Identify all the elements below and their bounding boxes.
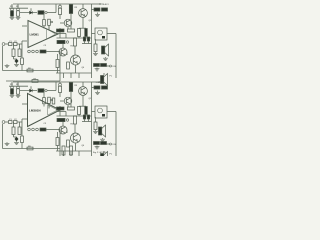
capacitor C11 zobel bottom: [94, 142, 100, 145]
wire Q2 base top: [60, 22, 64, 24]
diode D2 bottom: [85, 107, 88, 115]
transistor Q4 top: [71, 55, 81, 65]
wire rail drop A bottom: [59, 82, 61, 84]
diode D1 bottom: [30, 89, 33, 92]
svg-text:+ 40 V: + 40 V: [103, 4, 110, 6]
capacitor C2 top: [17, 8, 20, 11]
wire rail cont D top: [91, 73, 93, 78]
wire input 2 bottom: [17, 121, 22, 123]
wire boot top: [59, 28, 61, 38]
wire fb link bottom: [59, 149, 61, 160]
wire Q1 emitter bottom: [82, 95, 84, 106]
wire Q3 base link top: [62, 44, 64, 48]
wire R6 stub bottom: [48, 103, 50, 108]
capacitor C5 bottom: [14, 121, 18, 124]
wire input top: [5, 43, 9, 45]
wire output top: [57, 33, 66, 35]
resistor R1 top: [11, 11, 14, 16]
output terminal top: [110, 65, 112, 67]
capacitor C10 bottom: [59, 83, 62, 86]
resistor R5 top: [43, 20, 46, 26]
resistor R19b cut: [70, 146, 73, 155]
node mid bottom: [66, 119, 68, 121]
node bias top: [45, 11, 47, 13]
wire Q4 emitter bottom: [75, 143, 77, 151]
wire R2 top lead top: [17, 4, 19, 8]
transistor Q4 bottom: [71, 133, 81, 143]
transistor Q1 top: [79, 9, 88, 18]
resistor R6 bottom: [48, 97, 51, 103]
resistor R9 feedback bottom: [32, 158, 38, 161]
resistor R2 bottom: [17, 89, 20, 94]
wire R17 link top: [74, 46, 76, 55]
wire R20 lead top: [92, 9, 95, 11]
resistor R14 bottom: [68, 107, 75, 110]
resistor R16 bottom: [57, 118, 65, 121]
wire output bottom: [57, 111, 66, 113]
wire comp row top: [46, 51, 60, 53]
supply terminal top: [100, 3, 104, 5]
wire input down top: [21, 44, 23, 58]
wire feedback 1 bottom: [3, 148, 61, 150]
fuse box F1 top: [95, 28, 107, 40]
resistor R4 bottom: [18, 127, 21, 135]
wire div drop1 top: [13, 44, 15, 49]
wire feedback drop bottom: [2, 124, 4, 149]
resistor R17 bottom: [74, 116, 77, 124]
wire pin comp1 top: [43, 13, 45, 20]
wire rail cont A bottom: [63, 151, 65, 156]
wire rail drop A top: [59, 4, 61, 6]
wire input down bottom: [21, 122, 23, 136]
wire fb link top: [59, 71, 61, 82]
wire Q3 base link bottom: [62, 122, 64, 126]
wire R14 link bottom: [70, 92, 72, 108]
resistor R19 top: [67, 62, 70, 69]
fuse box F1 bottom: [95, 106, 107, 118]
wire D2 link top: [85, 37, 87, 39]
wire R1 top lead bottom: [11, 82, 13, 86]
wire comp row bottom: [46, 129, 60, 131]
wire speaker2 lead bottom: [103, 151, 105, 153]
resistor R12 top: [69, 5, 72, 14]
wire R11-Q2 top: [59, 15, 61, 20]
wire R2 top lead bottom: [17, 82, 19, 86]
wire mid bus bottom: [57, 115, 92, 117]
wire R18 lead top: [57, 54, 59, 60]
resistor R22 top: [94, 44, 97, 52]
wire pin R6 bottom: [48, 103, 50, 107]
wire emitter tie top: [79, 27, 86, 29]
svg-text:LM391N: LM391N: [29, 109, 41, 113]
wire R3 down top: [13, 57, 15, 60]
op-amp LM391N bottom: [28, 94, 61, 127]
wire rail cont A top: [63, 73, 65, 78]
node mid top: [66, 41, 68, 43]
wire non-inverting input bottom: [22, 118, 27, 120]
wire bias rise top: [55, 4, 57, 13]
wire R3 down bottom: [13, 135, 15, 138]
capacitor C6 bottom: [15, 137, 19, 141]
capacitor C8 top: [32, 50, 35, 53]
wire Q1 collector top: [82, 4, 84, 9]
capacitor C3 bottom: [38, 89, 44, 93]
wire R18 lead bottom: [57, 132, 59, 138]
transistor Q3 top: [59, 48, 67, 56]
wire rail cont C top: [78, 73, 80, 78]
ground below R2 top: [16, 16, 21, 19]
speaker LS2 bottom: [101, 152, 108, 164]
wire pin comp1 bottom: [43, 91, 45, 98]
resistor R1 bottom: [11, 89, 14, 94]
resistor R18 bottom: [56, 138, 59, 146]
svg-text:LM391: LM391: [30, 33, 40, 37]
wire Q3-Q4 bottom: [66, 130, 68, 133]
resistor R9 feedback top: [32, 80, 38, 83]
transistor Q1 bottom: [79, 87, 88, 96]
wire R20 lead bottom: [92, 87, 95, 89]
ground speaker bottom: [100, 138, 105, 141]
capacitor C2 bottom: [17, 86, 20, 89]
wire bottom bus bottom: [56, 150, 92, 152]
transistor Q2 bottom: [64, 97, 72, 105]
wire Q1 collector bottom: [82, 82, 84, 87]
resistor R3 top: [12, 49, 15, 57]
wire bottom cut B: [70, 155, 72, 156]
wire bottom cut A: [63, 155, 65, 156]
resistor R13 top: [57, 29, 65, 32]
wire emitter tie bottom: [79, 105, 86, 107]
wire output up top: [65, 34, 67, 39]
ground R20 bottom: [95, 91, 100, 95]
supply terminal bottom: [100, 81, 104, 83]
op-amp inner triangle top: [47, 29, 56, 39]
resistor R8 feedback top: [27, 69, 33, 72]
wire fuse lead top: [92, 33, 96, 35]
capacitor C9 top: [36, 50, 39, 53]
wire Q2 base bottom: [60, 100, 64, 102]
resistor R20 top: [94, 8, 100, 11]
wire out link bottom: [107, 111, 116, 113]
diode D4 top: [87, 37, 89, 41]
wire D4 link top: [88, 41, 90, 44]
diode D1 top: [30, 11, 33, 14]
resistor R13 bottom: [57, 107, 65, 110]
capacitor C11 zobel top: [94, 64, 100, 67]
node pin8 bottom: [51, 99, 53, 101]
capacitor C5 top: [14, 43, 18, 46]
input jack J1 top: [2, 43, 5, 46]
wire inverting input top: [22, 25, 27, 27]
wire input up bottom: [21, 119, 23, 122]
resistor R15 top: [78, 29, 81, 37]
wire comp drop top: [59, 52, 61, 71]
ground below R2 bottom: [16, 94, 21, 97]
wire rail cont C bottom: [78, 151, 80, 156]
wire div drop2 bottom: [19, 122, 21, 127]
diode D3 bottom: [83, 115, 85, 119]
fuse contact top: [102, 36, 105, 39]
wire bias to rail bottom: [47, 90, 56, 92]
capacitor C8 bottom: [32, 128, 35, 131]
resistor R4 top: [18, 49, 21, 57]
wire supply stub top: [92, 3, 101, 5]
wire right rail top: [91, 4, 93, 73]
resistor R5 bottom: [43, 98, 46, 104]
wire R15 link top: [78, 37, 80, 39]
resistor R14 top: [68, 29, 75, 32]
ground zobel bottom: [95, 146, 100, 149]
ground speaker top: [103, 57, 108, 60]
op-amp inner triangle bottom: [48, 105, 58, 115]
resistor R24 bottom: [52, 98, 55, 104]
speaker LS2 top: [101, 74, 108, 86]
ground zobel top: [95, 68, 100, 71]
resistor R21 top: [102, 8, 108, 11]
diode D3 top: [83, 37, 85, 41]
resistor R17 top: [74, 38, 77, 46]
resistor R6 top: [48, 19, 51, 25]
wire R22 lead bottom: [95, 117, 97, 122]
wire Q2 emitter link bottom: [67, 105, 69, 107]
ground input top: [5, 64, 10, 68]
wire output up bottom: [65, 112, 67, 117]
wire R1 top lead top: [11, 4, 13, 8]
wire R15 link bottom: [78, 115, 80, 117]
wire R7 down bottom: [21, 143, 23, 149]
resistor R15 bottom: [78, 107, 81, 115]
capacitor C4 bottom: [9, 121, 13, 124]
op-amp LM391 top: [28, 21, 58, 48]
wire output terminal top: [107, 65, 110, 67]
capacitor C6 top: [15, 59, 19, 63]
wire R6 stub top: [48, 25, 50, 30]
wire speaker2 lead top: [103, 73, 105, 75]
ground R22 top: [93, 52, 98, 56]
wire R22 lead top: [95, 39, 97, 44]
resistor R12 bottom: [69, 83, 72, 92]
wire feedback 2 top: [6, 80, 60, 82]
resistor R11 bottom: [59, 86, 62, 92]
wire diode lead top: [30, 8, 32, 11]
resistor R3 bottom: [12, 127, 15, 135]
wire rail cont D bottom: [91, 151, 93, 156]
wire rail cont B top: [70, 73, 72, 78]
resistor R7 bottom: [21, 136, 24, 143]
wire out rail bottom: [115, 112, 117, 157]
ground R22 bottom: [93, 130, 98, 134]
wire feedback 1 top: [3, 70, 61, 72]
wire non-inverting input top: [22, 40, 27, 42]
capacitor C1 top: [11, 8, 14, 11]
capacitor C7 bottom: [28, 128, 31, 131]
fuse element top: [98, 30, 103, 35]
resistor R11 top: [59, 8, 62, 14]
wire R3-C6 bottom: [14, 136, 17, 138]
wire bias rise bottom: [55, 82, 57, 91]
wire +40V rail top: [13, 3, 92, 5]
capacitor C7 top: [28, 50, 31, 53]
fuse contact bottom: [102, 114, 105, 117]
ground divider top: [14, 63, 19, 66]
wire feedback 2 bottom: [6, 158, 60, 160]
wire div drop2 top: [19, 44, 21, 49]
wire right rail bottom: [91, 82, 93, 151]
ground R20 top: [95, 13, 100, 17]
wire input bottom: [5, 121, 9, 123]
wire D2 link bottom: [85, 115, 87, 117]
wire supply stub bottom: [92, 81, 101, 83]
speaker LS1 top: [102, 44, 109, 56]
wire Q4 emitter top: [75, 65, 77, 73]
resistor R10 top: [40, 50, 46, 53]
wire bias top link top: [9, 7, 28, 9]
wire R11-Q2 bottom: [59, 93, 61, 98]
wire bias top link bottom: [9, 85, 28, 87]
input jack J1 bottom: [2, 121, 5, 124]
wire mid bus top: [57, 37, 92, 39]
wire R18 down top: [57, 68, 59, 74]
resistor R23 zobel top: [101, 64, 107, 67]
wire diode bus top: [82, 43, 92, 45]
wire R17 link bottom: [74, 124, 76, 133]
wire Q2 emitter link top: [67, 27, 69, 29]
wire bias row top: [20, 12, 37, 14]
wire out link top: [107, 33, 116, 35]
node pin8 top: [51, 21, 53, 23]
wire R14 link top: [70, 14, 72, 30]
wire rail cont B bottom: [70, 151, 72, 156]
wire output terminal bottom: [107, 143, 110, 145]
svg-text:+ 40 V: + 40 V: [96, 82, 103, 84]
wire boot bottom: [59, 106, 61, 116]
wire Q1 emitter top: [82, 17, 84, 28]
resistor R22 bottom: [94, 122, 97, 130]
resistor R19 bottom: [67, 140, 70, 147]
resistor R18b cut: [62, 146, 65, 155]
resistor R21 bottom: [102, 86, 108, 89]
ground input bottom: [5, 142, 10, 146]
ground divider bottom: [14, 141, 19, 144]
wire bias to rail top: [47, 12, 56, 14]
wire bottom bus top: [56, 72, 92, 74]
resistor R20 bottom: [94, 86, 100, 89]
ground below R1 bottom: [10, 94, 15, 97]
wire rail drop B top: [70, 3, 72, 6]
capacitor C4 top: [9, 43, 13, 46]
capacitor C10 top: [59, 5, 62, 8]
wire D4 link bottom: [88, 119, 90, 122]
resistor R10 bottom: [40, 128, 46, 131]
wire out rail top: [115, 34, 117, 79]
resistor R7 top: [21, 58, 24, 65]
wire comp drop bottom: [59, 130, 61, 149]
node bias bottom: [45, 89, 47, 91]
wire diode lead bottom: [30, 86, 32, 89]
resistor R23 zobel bottom: [101, 142, 107, 145]
wire bias row bottom: [20, 90, 37, 92]
wire R5 stub bottom: [43, 104, 45, 107]
capacitor C1 bottom: [11, 86, 14, 89]
wire diode bus bottom: [82, 121, 92, 123]
speaker LS1 bottom: [99, 125, 106, 137]
resistor R18 top: [56, 60, 59, 68]
capacitor C3 top: [38, 11, 44, 15]
wire rail drop B bottom: [70, 81, 72, 84]
diode D2 top: [85, 29, 88, 37]
diode D4 bottom: [87, 115, 89, 119]
wire D3 link top: [84, 41, 86, 44]
wire pin R6 top: [48, 25, 50, 29]
wire Q3-Q4 top: [66, 52, 68, 55]
wire D3 link bottom: [84, 119, 86, 122]
output terminal bottom: [110, 143, 112, 145]
wire R7 down top: [21, 65, 23, 71]
wire feedback drop top: [2, 46, 4, 71]
wire R3-C6 top: [14, 58, 17, 60]
wire R18 down bottom: [57, 146, 59, 152]
resistor R2 top: [17, 11, 20, 16]
capacitor C9 bottom: [36, 128, 39, 131]
ground below R1 top: [10, 16, 15, 19]
transistor Q3 bottom: [59, 126, 67, 134]
fuse element bottom: [98, 108, 103, 113]
resistor R8 feedback bottom: [27, 147, 33, 150]
wire +40V rail bottom: [13, 81, 92, 83]
transistor Q2 top: [64, 19, 72, 27]
wire inverting input bottom: [22, 103, 27, 105]
resistor R16 top: [57, 40, 65, 43]
wire fuse lead bottom: [92, 111, 96, 113]
svg-text:Fig. 2 LM 391: Fig. 2 LM 391: [93, 152, 107, 154]
wire input 2 top: [17, 43, 22, 45]
wire input up top: [21, 41, 23, 44]
wire R5 stub top: [43, 26, 45, 29]
wire div drop1 bottom: [13, 122, 15, 127]
